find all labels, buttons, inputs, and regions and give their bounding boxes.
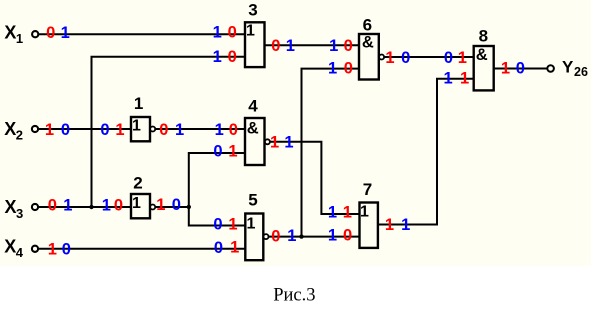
wire X2 to gate 1 input <box>38 128 131 130</box>
svg-text:0: 0 <box>271 37 280 55</box>
svg-text:3: 3 <box>248 1 257 20</box>
caption Рис.3 <box>273 286 315 306</box>
svg-text:1: 1 <box>213 24 222 42</box>
value labels 1 1 at gate 7 pin A <box>328 204 352 222</box>
svg-text:1: 1 <box>16 31 23 46</box>
svg-text:1: 1 <box>48 241 57 259</box>
output terminal Y26 <box>547 65 554 72</box>
wire gate 1 output to gate 4 input A <box>155 128 245 130</box>
OR gate U3 <box>245 22 265 67</box>
svg-text:1: 1 <box>444 70 453 88</box>
svg-text:1: 1 <box>360 204 369 221</box>
junction at gate 2 output branch <box>187 205 191 209</box>
svg-text:3: 3 <box>16 206 23 221</box>
value labels 1 0 at gate 3 pin B <box>213 48 237 66</box>
input terminal X3 <box>32 204 38 210</box>
svg-text:0: 0 <box>61 121 70 139</box>
input terminal X1 <box>32 31 38 37</box>
svg-text:1: 1 <box>156 196 165 214</box>
wire junction down to gate 5 input A <box>189 207 245 226</box>
svg-text:1: 1 <box>287 227 296 245</box>
svg-text:1: 1 <box>228 142 237 160</box>
svg-text:X: X <box>5 197 17 217</box>
svg-text:0: 0 <box>344 60 353 78</box>
svg-text:&: & <box>476 46 488 64</box>
output label Y26 <box>562 58 588 79</box>
svg-text:1: 1 <box>458 49 467 67</box>
value labels 0 1 on X3 wire <box>48 196 73 214</box>
svg-text:1: 1 <box>134 94 143 113</box>
svg-text:1: 1 <box>228 215 237 233</box>
svg-text:1: 1 <box>401 216 410 234</box>
svg-text:2: 2 <box>16 128 23 143</box>
wire junction up to gate 6 input B <box>302 69 360 237</box>
wire X1 to gate 3 input A <box>38 33 245 35</box>
svg-text:0: 0 <box>46 24 55 42</box>
wire X4 to gate 5 input B <box>38 248 245 250</box>
svg-text:0: 0 <box>100 121 109 139</box>
svg-text:4: 4 <box>16 245 24 260</box>
wire gate 7 output to gate 8 input B <box>378 79 474 225</box>
svg-text:1: 1 <box>115 121 124 139</box>
value labels 1 0 at gate 3 pin A <box>213 24 237 42</box>
svg-text:1: 1 <box>328 59 337 77</box>
svg-text:0: 0 <box>516 60 525 78</box>
svg-text:1: 1 <box>247 216 256 233</box>
value labels 1 0 at gate 6 output <box>385 49 410 67</box>
value labels 0 1 at gate 1 output <box>159 121 184 139</box>
gate U3 designator 3 <box>248 1 257 20</box>
gate U2 designator 2 <box>133 173 142 192</box>
value labels 1 0 at gate 2 output <box>156 196 181 214</box>
wire X3 to gate 2 input <box>38 206 131 208</box>
value labels 1 0 on X4 wire <box>48 241 71 259</box>
NAND gate U6 <box>359 34 384 80</box>
svg-text:1: 1 <box>328 204 337 222</box>
junction on X3 wire (branch to gate 3) <box>89 205 93 209</box>
input label X4 <box>4 237 24 261</box>
svg-text:0: 0 <box>344 37 353 55</box>
OR gate U7 <box>360 203 378 248</box>
svg-text:0: 0 <box>213 215 222 233</box>
value labels 1 1 at gate 7 output <box>385 216 410 234</box>
svg-text:1: 1 <box>460 70 469 88</box>
svg-text:0: 0 <box>228 48 237 66</box>
input label X2 <box>4 119 23 143</box>
NOT gate U2 <box>131 194 155 218</box>
gate U8 designator 8 <box>479 26 488 45</box>
svg-text:1: 1 <box>284 134 293 152</box>
svg-text:1: 1 <box>329 37 338 55</box>
AND gate U8 <box>474 46 494 90</box>
svg-text:7: 7 <box>363 180 372 199</box>
wire gate 5 output to gate 7 input B <box>269 236 360 238</box>
value labels 0 1 at gate 5 pin B <box>214 239 239 257</box>
svg-text:1: 1 <box>132 118 141 135</box>
svg-text:1: 1 <box>63 196 72 214</box>
svg-text:2: 2 <box>133 173 142 192</box>
NAND gate U4 <box>245 118 270 165</box>
input terminal X2 <box>32 126 38 132</box>
svg-text:5: 5 <box>248 191 257 210</box>
svg-text:1: 1 <box>328 227 337 245</box>
svg-text:1: 1 <box>102 196 111 214</box>
svg-text:6: 6 <box>363 16 372 35</box>
svg-text:1: 1 <box>270 134 279 152</box>
value labels 0 1 on X1 wire <box>46 24 70 42</box>
svg-text:1: 1 <box>175 121 184 139</box>
wire gate 6 output to gate 8 input A <box>384 56 474 58</box>
wire gate 3 output to gate 6 input A <box>265 44 359 46</box>
svg-text:1: 1 <box>385 216 394 234</box>
svg-text:1: 1 <box>215 121 224 139</box>
svg-text:Y: Y <box>562 58 574 77</box>
gate U4 designator 4 <box>248 96 258 115</box>
svg-text:0: 0 <box>213 143 222 161</box>
value labels 1 0 at gate 6 pin A <box>329 37 353 55</box>
svg-text:0: 0 <box>62 241 71 259</box>
value labels 0 1 at gate 5 output <box>271 227 296 245</box>
svg-text:26: 26 <box>574 65 588 79</box>
value labels 1 1 at gate 8 pin B <box>444 70 470 88</box>
svg-text:1: 1 <box>246 22 255 39</box>
NOT gate U1 <box>131 117 155 141</box>
gate U6 designator 6 <box>363 16 372 35</box>
svg-text:1: 1 <box>385 49 394 67</box>
svg-text:0: 0 <box>444 49 453 67</box>
svg-text:1: 1 <box>132 195 141 212</box>
svg-text:&: & <box>247 120 259 138</box>
svg-text:8: 8 <box>479 26 488 45</box>
input label X3 <box>5 197 24 221</box>
svg-text:1: 1 <box>501 60 510 78</box>
gate U7 designator 7 <box>363 180 372 199</box>
svg-text:1: 1 <box>45 121 54 139</box>
svg-text:Рис.3: Рис.3 <box>273 286 315 306</box>
svg-text:X: X <box>4 237 16 257</box>
value labels 1 0 at gate 7 pin B <box>328 227 352 245</box>
value labels 0 1 at gate 5 pin A <box>213 215 237 233</box>
svg-text:0: 0 <box>229 121 238 139</box>
gate U1 designator 1 <box>134 94 143 113</box>
svg-text:1: 1 <box>213 48 222 66</box>
svg-text:0: 0 <box>172 196 181 214</box>
gate U5 designator 5 <box>248 191 257 210</box>
svg-text:1: 1 <box>286 37 295 55</box>
svg-text:0: 0 <box>214 239 223 257</box>
value labels 0 1 at gate 3 output <box>271 37 295 55</box>
svg-text:0: 0 <box>401 49 410 67</box>
svg-text:4: 4 <box>248 96 258 115</box>
value labels 1 0 at gate 4 pin A <box>215 121 238 139</box>
wire gate 8 output to Y26 terminal <box>494 68 548 70</box>
svg-text:0: 0 <box>343 227 352 245</box>
svg-text:1: 1 <box>61 24 70 42</box>
value labels 1 1 at gate 4 output <box>270 134 294 152</box>
value labels 1 0 at gate 2 input <box>102 196 123 214</box>
svg-text:1: 1 <box>230 239 239 257</box>
wire junction up to gate 4 input B <box>189 153 245 207</box>
wire gate 2 output to junction <box>155 206 188 208</box>
value labels 1 0 on X2 wire <box>45 121 70 139</box>
value labels 0 1 at gate 1 input <box>100 121 124 139</box>
value labels 1 0 at gate 8 output <box>501 60 525 78</box>
svg-text:0: 0 <box>48 197 57 215</box>
svg-text:X: X <box>4 119 16 139</box>
junction at gate 5 output branch <box>299 234 303 238</box>
input label X1 <box>4 22 23 46</box>
value labels 0 1 at gate 8 pin A <box>444 49 467 67</box>
wire X3 branch up to gate 3 input B <box>92 57 246 207</box>
svg-text:X: X <box>4 22 16 42</box>
value labels 1 0 at gate 6 pin B <box>328 59 353 77</box>
wire gate 4 output to gate 7 input A <box>270 142 360 214</box>
svg-text:&: & <box>362 34 374 52</box>
svg-text:1: 1 <box>343 204 352 222</box>
value labels 0 1 at gate 4 pin B <box>213 142 237 160</box>
svg-text:0: 0 <box>228 24 237 42</box>
NOR gate U5 <box>245 214 268 261</box>
input terminal X4 <box>32 246 38 252</box>
svg-text:0: 0 <box>114 197 123 215</box>
svg-text:0: 0 <box>271 227 280 245</box>
svg-text:0: 0 <box>159 121 168 139</box>
